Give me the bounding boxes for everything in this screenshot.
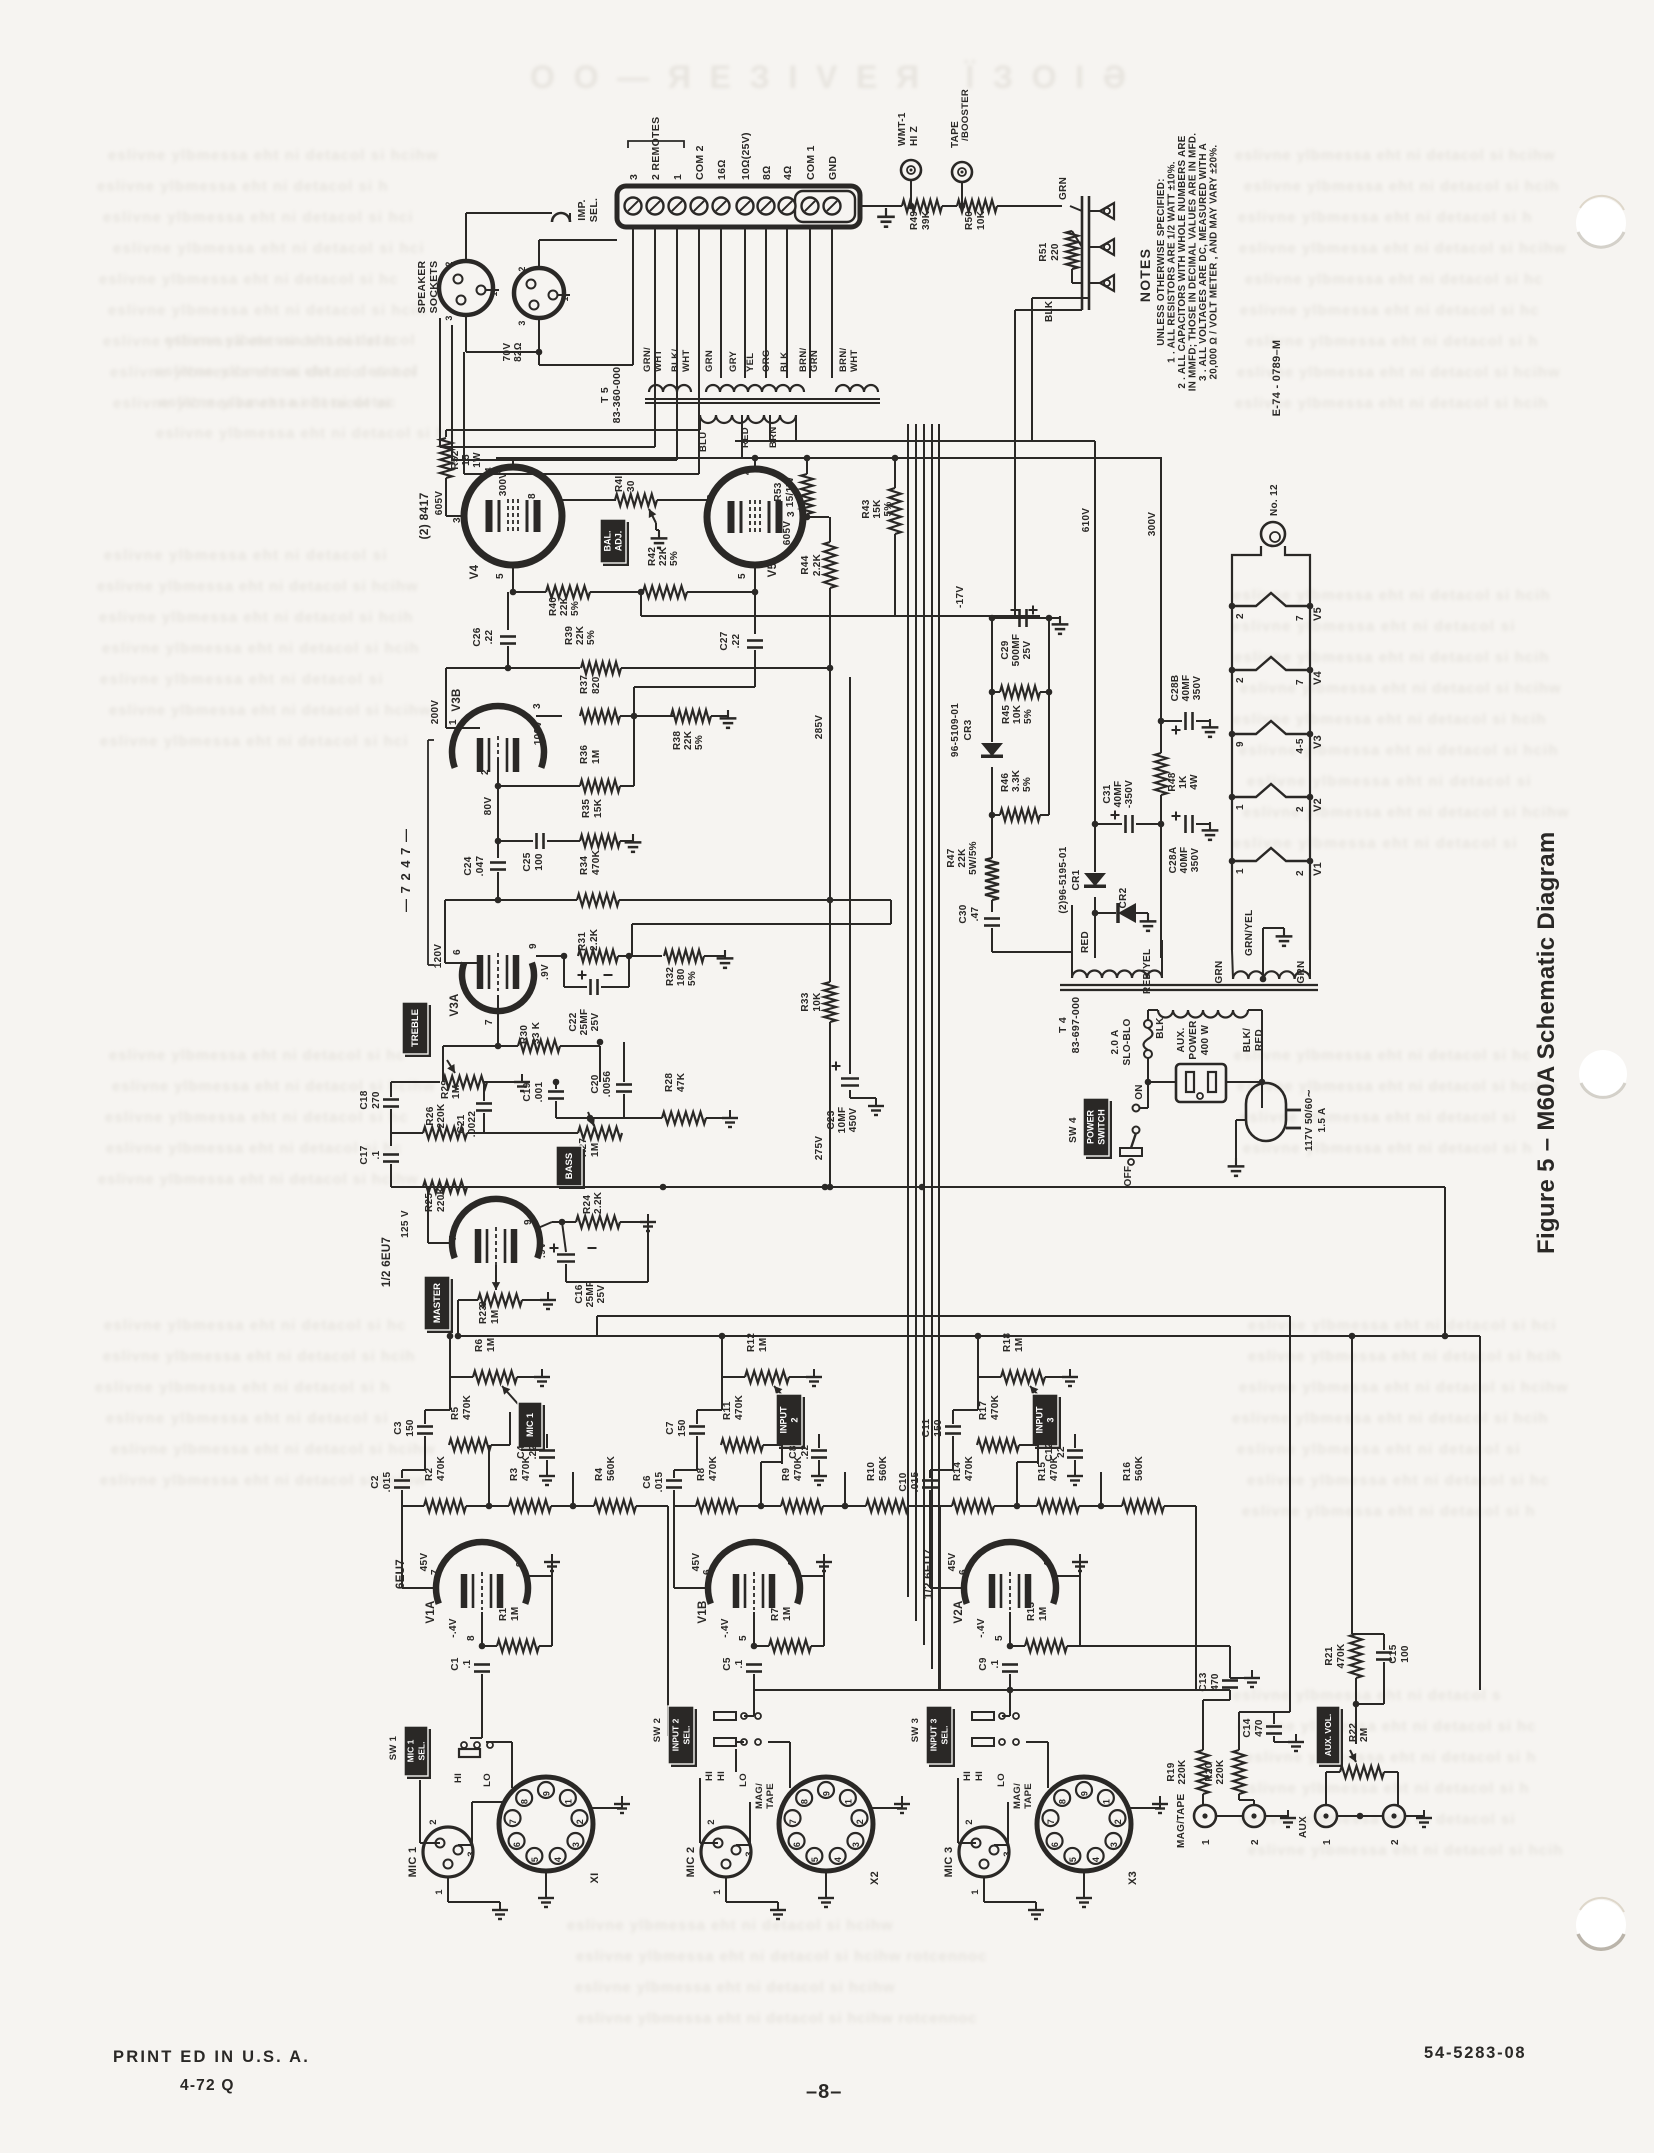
svg-text:3 . ALL VOLTAGES ARE DC, MEASU: 3 . ALL VOLTAGES ARE DC, MEASURED WITH A [1198,143,1209,381]
svg-text:R5: R5 [450,1406,461,1420]
aux power outlet [1176,1064,1226,1102]
svg-text:TAPE: TAPE [765,1783,776,1809]
svg-text:eslivne ylbmessa eht ni detaco: eslivne ylbmessa eht ni detacol si hci [100,733,408,750]
svg-text:R32: R32 [665,967,676,986]
svg-text:MIC 1: MIC 1 [406,1739,416,1762]
svg-text:SEL.: SEL. [940,1726,950,1745]
svg-text:BLK: BLK [1044,300,1055,322]
capacitor C19 .001 [548,1090,564,1093]
bass label box [559,1149,585,1189]
svg-text:1: 1 [1101,1799,1111,1804]
svg-text:1M: 1M [590,1143,601,1158]
svg-text:eslivne ylbmessa eht ni detaco: eslivne ylbmessa eht ni detacol si hcih [1248,1842,1563,1859]
resistor R53 15/1W [801,474,813,514]
svg-text:470K: 470K [521,1455,532,1481]
T4 primary winding [1158,1010,1248,1018]
svg-text:eslivne ylbmessa eht ni detaco: eslivne ylbmessa eht ni detacol si hcihw [97,578,418,595]
tube V2B [452,1199,540,1258]
svg-text:5: 5 [810,1857,820,1862]
punch hole bottom [1576,1900,1626,1950]
svg-text:LO: LO [996,1773,1007,1787]
svg-text:40MF: 40MF [1113,781,1124,808]
svg-text:eslivne ylbmessa eht ni detaco: eslivne ylbmessa eht ni detacol si [100,671,383,688]
svg-text:82Ω: 82Ω [513,342,524,362]
svg-text:470K: 470K [1336,1643,1347,1669]
svg-text:.1: .1 [990,1659,1001,1668]
svg-text:15K: 15K [872,499,883,519]
svg-text:eslivne ylbmessa eht ni detaco: eslivne ylbmessa eht ni detacol si hcih [108,302,426,319]
svg-text:9: 9 [1080,1791,1090,1796]
resistor R4 560K [594,1500,636,1512]
svg-text:LO: LO [738,1773,749,1787]
svg-text:22K: 22K [658,546,669,566]
capacitor C31 40MF 350V [1095,823,1122,825]
capacitor C30 .47 [984,917,1000,920]
svg-text:20,000 Ω / VOLT METER , AND M: 20,000 Ω / VOLT METER , AND MAY VARY ±20… [1209,145,1220,380]
svg-text:SW 1: SW 1 [388,1735,399,1760]
rail 610V [735,440,1095,442]
heater winding V1 [1232,848,1310,861]
svg-text:1 . ALL RESISTORS ARE 1/2 WA: 1 . ALL RESISTORS ARE 1/2 WATT ±10%. [1167,161,1178,363]
svg-text:560K: 560K [1134,1455,1145,1481]
svg-text:2.2K: 2.2K [589,928,600,951]
svg-text:GRN: GRN [1296,960,1307,983]
svg-text:3: 3 [786,511,797,517]
transformer T4 HV secondary [1072,971,1162,978]
svg-text:AUX. VOL.: AUX. VOL. [1323,1714,1333,1757]
capacitor C2 .015 [394,1479,410,1482]
ground at strip right [860,205,886,207]
svg-text:V4: V4 [469,564,481,579]
diode CR1 [1084,873,1106,886]
ch1 socket wiring [481,1680,483,1738]
svg-text:BLU: BLU [698,432,709,452]
svg-text:R7: R7 [770,1607,781,1621]
phono jack [1100,239,1114,255]
svg-text:15/1W: 15/1W [785,477,796,508]
svg-text:.047: .047 [475,856,486,877]
svg-text:GRN/YEL: GRN/YEL [1244,909,1255,956]
svg-text:C10: C10 [898,1472,909,1491]
svg-text:7: 7 [430,1569,441,1575]
tube V3A [462,963,534,1011]
resistor R40 22K 5% [546,586,590,598]
svg-text:WHT: WHT [653,349,664,372]
svg-text:7: 7 [1295,615,1306,621]
svg-text:MIC 2: MIC 2 [685,1847,697,1878]
svg-text:eslivne ylbmessa eht ni detaco: eslivne ylbmessa eht ni detacol si hc [109,1047,405,1064]
svg-text:5: 5 [738,1635,749,1641]
svg-text:eslivne ylbmessa eht ni detaco: eslivne ylbmessa eht ni detacol si [1232,618,1515,635]
svg-text:C7: C7 [665,1421,676,1435]
svg-text:39K: 39K [921,210,932,230]
svg-text:R9: R9 [781,1467,792,1481]
svg-text:1: 1 [843,1799,853,1804]
pot R22 2M [1340,1766,1384,1778]
svg-text:C23: C23 [826,1110,837,1129]
svg-text:eslivne ylbmessa eht ni detaco: eslivne ylbmessa eht ni detacol si [1247,773,1531,790]
tube V1B [708,1542,800,1604]
svg-text:C22: C22 [568,1012,579,1031]
XLR socket MIC 2 [701,1827,751,1877]
svg-text:eslivne ylbmessa eht ni detaco: eslivne ylbmessa eht ni detacol si hcih [1244,178,1559,195]
svg-text:117V 50/60∼: 117V 50/60∼ [1304,1089,1315,1151]
terminal screw [713,198,730,215]
svg-text:BRN/: BRN/ [838,348,849,372]
capacitor C16 25MF 25V [550,1247,559,1249]
capacitor C22 25MF 25V [563,956,565,987]
svg-text:GND: GND [827,156,839,180]
svg-text:1: 1 [672,174,684,180]
svg-text:eslivne ylbmessa eht ni detaco: eslivne ylbmessa eht ni detacol si hcihw [111,1441,435,1458]
svg-text:40MF: 40MF [1181,675,1192,702]
svg-text:ORG: ORG [761,349,772,372]
svg-text:eslivne ylbmessa eht ni detaco: eslivne ylbmessa eht ni detacol si hc [104,1317,406,1334]
svg-text:eslivne ylbmessa eht ni detaco: eslivne ylbmessa eht ni detacol si hcih [1248,1348,1561,1365]
svg-text:9: 9 [515,1561,526,1567]
svg-text:1: 1 [1235,868,1246,874]
svg-text:470: 470 [1210,1673,1221,1691]
imp sel jumper [552,213,570,222]
capacitor C15 100 [1376,1651,1392,1654]
svg-text:2: 2 [964,1819,975,1825]
svg-text:8: 8 [1058,1799,1068,1804]
svg-text:eslivne ylbmessa eht ni detaco: eslivne ylbmessa eht ni detacol si hcih [102,640,419,657]
svg-text:22K: 22K [957,848,968,868]
svg-text:300V: 300V [498,472,509,497]
svg-text:220K: 220K [436,1103,447,1129]
svg-text:V3B: V3B [451,688,463,711]
tube socket X1 [499,1777,593,1871]
svg-text:8: 8 [706,494,717,500]
aux vol label box [1319,1709,1343,1767]
svg-text:350V: 350V [1190,848,1201,873]
svg-text:470: 470 [1254,1719,1265,1737]
svg-text:220K: 220K [1215,1759,1226,1785]
svg-text:BRN/: BRN/ [798,348,809,372]
resistor R38 22K 5% [671,710,711,722]
svg-text:R39: R39 [564,626,575,645]
svg-text:3: 3 [571,1842,581,1847]
svg-text:OO—ЯEЗIVEЯ ЇЗOIƏ: OO—ЯEЗIVEЯ ЇЗOIƏ [530,59,1130,95]
svg-text:INPUT 2: INPUT 2 [671,1718,681,1751]
svg-text:9: 9 [542,1791,552,1796]
svg-text:eslivne ylbmessa eht ni detaco: eslivne ylbmessa eht ni detacol si h [1238,209,1532,226]
svg-text:3: 3 [851,1842,861,1847]
svg-text:R52: R52 [450,450,461,469]
svg-text:R4: R4 [594,1467,605,1481]
svg-text:eslivne ylbmessa eht ni detaco: eslivne ylbmessa eht ni detacol si hc [105,1109,408,1126]
svg-text:eslivne ylbmessa eht ni detaco: eslivne ylbmessa eht ni detacol si hcihw [1240,680,1561,697]
resistor R43 15K 5% [889,488,901,534]
svg-text:3: 3 [1109,1842,1119,1847]
svg-text:100V: 100V [533,721,544,746]
svg-text:10Ω(25V): 10Ω(25V) [740,132,752,180]
svg-text:4: 4 [1091,1857,1101,1862]
capacitor C3 150 [417,1425,433,1428]
svg-text:(2) 8417: (2) 8417 [417,492,431,539]
svg-text:YEL: YEL [745,353,756,372]
svg-text:ADJ.: ADJ. [614,531,624,552]
svg-text:R23: R23 [478,1305,489,1324]
svg-text:R25: R25 [424,1193,435,1212]
resistor R32 180 5% [629,955,662,957]
svg-text:560K: 560K [606,1455,617,1481]
svg-text:8: 8 [800,1799,810,1804]
tube V1A [436,1542,528,1604]
svg-text:eslivne ylbmessa eht ni detaco: eslivne ylbmessa eht ni detacol si hcihw [108,147,438,164]
svg-text:5: 5 [1068,1857,1078,1862]
XLR socket MIC 1 [423,1827,473,1877]
svg-text:SW 3: SW 3 [910,1718,921,1742]
svg-text:R10: R10 [866,1462,877,1481]
svg-text:MIC 1: MIC 1 [525,1413,535,1437]
mag/tape jacks [1194,1805,1216,1827]
svg-text:120V: 120V [433,944,444,969]
resistor R3 470K [509,1500,551,1512]
svg-text:3: 3 [452,517,463,523]
svg-text:V5: V5 [1312,607,1324,621]
svg-text:30: 30 [626,480,637,492]
svg-text:5: 5 [495,573,506,579]
XLR socket MIC 3 [959,1827,1009,1877]
resistor R24 2.2K [576,1216,620,1228]
svg-text:R14: R14 [952,1462,963,1481]
svg-text:HI: HI [716,1771,727,1781]
svg-text:C15: C15 [1388,1644,1399,1663]
svg-text:4: 4 [1043,1561,1054,1567]
svg-text:2: 2 [428,1819,439,1825]
svg-text:X3: X3 [1127,1871,1139,1885]
svg-text:2.2K: 2.2K [812,553,823,576]
svg-text:R16: R16 [1122,1462,1133,1481]
svg-text:2 REMOTES: 2 REMOTES [650,117,662,180]
svg-text:R1: R1 [498,1607,509,1621]
svg-text:5: 5 [530,1857,540,1862]
svg-text:R8: R8 [696,1467,707,1481]
svg-text:200V: 200V [430,700,441,725]
svg-text:C6: C6 [642,1475,653,1489]
capacitor C1 .1 [474,1663,490,1666]
svg-text:.22: .22 [731,633,742,648]
tube V5 [707,469,803,565]
T4 heater secondary [1233,971,1310,979]
resistor R42 22K 5% [643,586,687,598]
svg-text:100: 100 [534,853,545,871]
svg-text:C26: C26 [472,627,483,646]
svg-text:eslivne ylbmessa eht ni detaco: eslivne ylbmessa eht ni detacol si hci [103,209,413,226]
T5 leads [699,415,701,430]
svg-text:INPUT 3: INPUT 3 [929,1718,939,1751]
svg-text:HI Z: HI Z [909,126,920,146]
svg-text:R48: R48 [1167,772,1178,791]
svg-text:R53: R53 [773,482,784,501]
svg-text:9: 9 [523,1219,534,1225]
ch2 socket wiring [753,1680,755,1716]
svg-text:SW 2: SW 2 [652,1718,663,1742]
svg-text:eslivne ylbmessa eht ni detaco: eslivne ylbmessa eht ni detacol si hc [1240,302,1539,319]
resistor R48 1K 4W [1155,753,1167,795]
svg-text:C5: C5 [722,1657,733,1671]
svg-text:–8–: –8– [806,2081,842,2103]
svg-text:500MF: 500MF [1011,634,1022,667]
svg-text:SEL.: SEL. [588,198,600,223]
svg-text:4-72 Q: 4-72 Q [180,2077,235,2094]
terminal screw [824,198,841,215]
svg-text:9: 9 [1235,741,1246,747]
svg-text:HI: HI [453,1773,464,1783]
svg-text:COM 2: COM 2 [694,145,706,180]
svg-text:R21: R21 [1324,1646,1335,1665]
svg-text:-.4V: -.4V [976,1618,987,1638]
svg-text:.9V: .9V [537,1242,548,1258]
pilot lamp No. 12 [1261,522,1285,546]
svg-text:TREBLE: TREBLE [410,1009,421,1047]
svg-text:.1: .1 [734,1659,745,1668]
svg-text:-17V: -17V [955,586,966,608]
svg-text:eslivne ylbmessa eht ni detaco: eslivne ylbmessa eht ni detacol si [1240,1811,1515,1828]
svg-text:eslivne ylbmessa eht ni detaco: eslivne ylbmessa eht ni detacol si hcih [1234,649,1549,666]
svg-text:10K: 10K [812,992,823,1012]
svg-text:1: 1 [563,1799,573,1804]
svg-text:C28B: C28B [1170,675,1181,702]
svg-text:1M: 1M [510,1607,521,1622]
pot R41 30 bal [615,494,657,506]
svg-text:8: 8 [527,493,538,499]
svg-text:eslivne ylbmessa eht ni detaco: eslivne ylbmessa eht ni detacol si hcihw [1237,364,1560,381]
svg-text:XI: XI [589,1873,601,1884]
svg-text:eslivne ylbmessa eht ni detaco: eslivne ylbmessa eht ni detacol si hci [1248,1317,1556,1334]
svg-text:MAG/: MAG/ [1012,1783,1023,1809]
svg-text:R15: R15 [1037,1462,1048,1481]
svg-text:eslivne ylbmessa eht ni detaco: eslivne ylbmessa eht ni detacol si h [1242,1503,1535,1520]
phono jack mounting strip [1081,196,1084,310]
capacitor C6 .015 [666,1479,682,1482]
capacitor C13 470 [1222,1679,1238,1682]
svg-text:GRN: GRN [809,350,820,372]
svg-text:150: 150 [933,1419,944,1437]
svg-text:V5: V5 [767,562,779,577]
svg-text:SEL.: SEL. [682,1726,692,1745]
pot R18 1M [1001,1371,1045,1383]
grid row wires [512,585,514,592]
svg-text:eslivne ylbmessa eht ni detaco: eslivne ylbmessa eht ni detacol si hcih [1232,1410,1548,1427]
svg-text:BLK: BLK [1155,1017,1166,1039]
svg-text:Figure 5 – M60A Schematic Diag: Figure 5 – M60A Schematic Diagram [1533,832,1560,1255]
svg-text:.22: .22 [484,629,495,644]
resistor R1 1M [497,1640,539,1652]
svg-text:C24: C24 [463,856,474,875]
resistor R45 10K 5% [991,618,993,692]
svg-text:eslivne ylbmessa eht ni detaco: eslivne ylbmessa eht ni detacol si hci [113,240,424,257]
svg-text:3: 3 [1002,1851,1013,1857]
remotes bracket [628,141,684,148]
input label box ch3 [1035,1397,1061,1449]
svg-text:5W/5%: 5W/5% [968,841,979,875]
svg-text:eslivne ylbmessa eht ni detaco: eslivne ylbmessa eht ni detacol [164,332,415,349]
resistor R21 470K [1350,1634,1362,1678]
svg-text:1: 1 [970,1889,981,1895]
jack WMT-1 HI Z [901,160,921,180]
svg-text:1M: 1M [490,1310,501,1325]
svg-text:25MF: 25MF [579,1009,590,1036]
svg-text:1: 1 [712,1889,723,1895]
svg-text:R34: R34 [579,856,590,875]
svg-text:7: 7 [788,1819,798,1824]
svg-text:5: 5 [737,573,748,579]
treble label box [405,1005,431,1057]
capacitor C28B 40MF 350V [1158,718,1165,725]
svg-text:C18: C18 [359,1090,370,1109]
heater supply loop [1232,546,1261,950]
pot R27 1M bass [578,1127,622,1139]
resistor R11 470K [721,1439,763,1451]
svg-text:C16: C16 [574,1284,585,1303]
svg-text:BLK/: BLK/ [1242,1028,1253,1053]
svg-text:3: 3 [1046,1417,1056,1422]
svg-text:R3: R3 [509,1467,520,1481]
svg-text:2: 2 [480,769,491,775]
svg-text:10K: 10K [976,210,987,230]
heater winding V2 [1232,784,1310,797]
svg-text:4-5: 4-5 [1295,738,1306,753]
svg-text:1M: 1M [782,1607,793,1622]
svg-text:R44: R44 [800,555,811,574]
pot R12 1M [745,1371,789,1383]
svg-text:1: 1 [1235,804,1246,810]
svg-text:9: 9 [528,943,539,949]
svg-text:eslivne ylbmessa eht ni detaco: eslivne ylbmessa eht ni detacol si [1237,1441,1520,1458]
svg-text:T 5: T 5 [599,387,611,403]
svg-text:R20: R20 [1204,1762,1215,1781]
svg-text:6: 6 [452,949,463,955]
speaker wiring [465,213,467,261]
svg-text:470K: 470K [793,1455,804,1481]
svg-text:15K: 15K [593,798,604,818]
terminal screw [779,198,796,215]
svg-text:eslivne ylbmessa eht ni detaco: eslivne ylbmessa eht ni detacol si hc [156,425,455,442]
svg-text:1: 1 [1322,1839,1333,1845]
svg-text:MIC 1: MIC 1 [407,1847,419,1878]
svg-text:2: 2 [1295,870,1306,876]
svg-text:2: 2 [1235,613,1246,619]
resistor R44 2.2K [824,542,836,588]
svg-text:R19: R19 [1166,1762,1177,1781]
svg-text:eslivne ylbmessa eht ni detaco: eslivne ylbmessa eht ni detacol si [1233,835,1517,852]
rail 300V [496,457,1162,459]
svg-text:eslivne ylbmessa eht ni detaco: eslivne ylbmessa eht ni detacol si hcihw [98,1171,418,1188]
svg-text:3: 3 [444,315,454,320]
resistor R37 820 [580,710,620,722]
svg-text:R42: R42 [647,547,658,566]
svg-text:820: 820 [591,676,602,694]
mag/tape bus [753,1689,1230,1691]
heater winding V3 [1232,721,1310,734]
svg-text:C14: C14 [1242,1718,1253,1737]
svg-text:LO: LO [482,1773,493,1787]
wire GRN [1048,205,1062,207]
resistor R31 2.2K [578,950,618,962]
capacitor C4 [539,1449,555,1452]
svg-text:AUX.: AUX. [1176,1027,1187,1052]
svg-text:2: 2 [1295,806,1306,812]
rail 300V right [1160,458,1162,718]
svg-text:eslivne ylbmessa eht ni detac: eslivne ylbmessa eht ni detac [159,394,396,411]
svg-text:R13: R13 [1026,1602,1037,1621]
svg-text:R49: R49 [909,211,920,230]
svg-text:2: 2 [1390,1839,1401,1845]
svg-text:R22: R22 [1348,1723,1359,1742]
